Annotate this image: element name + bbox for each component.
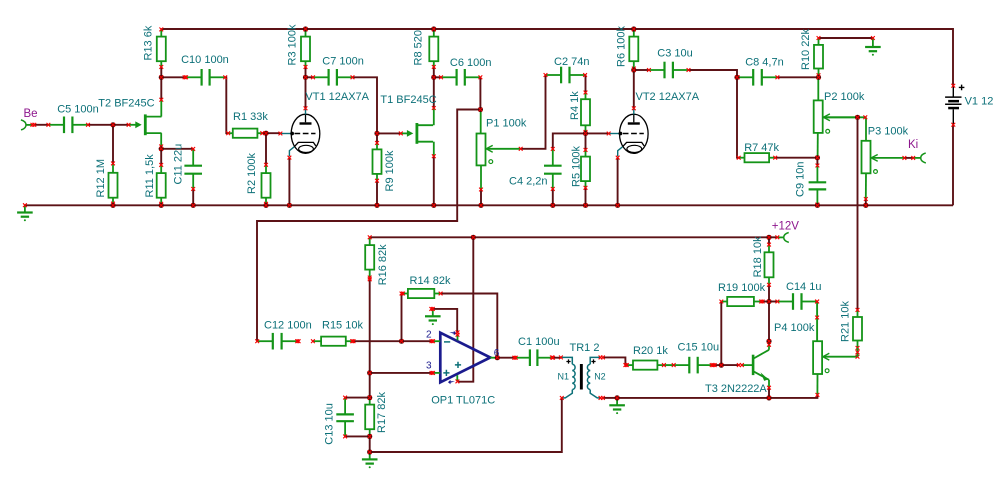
junction node at 865.8,205.3 xyxy=(863,203,868,208)
P3 top lead xyxy=(865,117,867,141)
T2 drain lead xyxy=(160,100,162,117)
wire P3 bottom to ground rail xyxy=(865,199,867,205)
svg-text:3: 3 xyxy=(426,361,432,372)
wire node to VT2 grid xyxy=(586,132,609,134)
R21 lead to P4 wiper xyxy=(857,348,859,357)
T1 drain lead xyxy=(433,108,435,125)
wire R10 top to ground xyxy=(819,37,873,39)
wire rail to R18 xyxy=(768,237,770,244)
junction node at 369.7,397.6 xyxy=(367,395,372,400)
wire R1 to VT1 grid xyxy=(262,132,280,134)
resistor R6 100k xyxy=(629,28,638,71)
capacitor C13 10u xyxy=(336,396,354,439)
junction node at 266,133.2 xyxy=(263,131,268,136)
resistor R1 33k xyxy=(226,129,264,138)
P4 bottom lead xyxy=(816,374,818,395)
wire node to R5 xyxy=(585,133,587,150)
svg-text:P4 100k: P4 100k xyxy=(774,322,815,334)
junction node at 769,341.2 xyxy=(766,339,771,344)
P4 top lead x xyxy=(815,300,819,304)
wire node to R2 xyxy=(265,133,267,165)
capacitor C4 2,2n xyxy=(544,147,562,191)
capacitor C3 10u xyxy=(647,62,690,79)
wire node to C10 xyxy=(161,76,186,78)
resistor R11 1,5k xyxy=(157,163,166,206)
output terminal Ki xyxy=(911,153,926,163)
resistor R10 22k xyxy=(814,36,823,77)
wire C7 to T1 gate node xyxy=(353,77,401,133)
wire C6 to node xyxy=(479,77,481,109)
wire node to C11 xyxy=(161,148,193,150)
wire ground rail xyxy=(25,204,953,206)
resistor R17 82k xyxy=(365,396,374,439)
wire C1 to TR1 primary xyxy=(553,357,561,359)
resistor R20 1k xyxy=(624,361,666,370)
capacitor C5 100n xyxy=(47,117,90,134)
svg-text:T2 BF245C: T2 BF245C xyxy=(98,98,154,110)
wire R14 right to output node xyxy=(441,294,498,358)
wire C11 to ground rail xyxy=(192,189,194,205)
resistor R7 47k xyxy=(737,153,777,162)
wire R9 to ground rail xyxy=(376,181,378,206)
junction node at 633.8,70 xyxy=(631,67,636,72)
wire C8 to R10 node xyxy=(777,76,818,78)
wire T1 source to ground rail xyxy=(433,156,435,205)
wire R12 to ground rail xyxy=(112,204,114,206)
resistor R12 1M xyxy=(109,162,118,206)
wire C14 right to P4 top xyxy=(816,302,818,342)
wire R5 to ground rail xyxy=(585,188,587,206)
wire node to R9 xyxy=(376,133,378,143)
wire node to C9 xyxy=(816,158,818,166)
wire R18 to node xyxy=(768,285,770,302)
P3 bottom lead xyxy=(865,173,867,199)
svg-text:R19 100k: R19 100k xyxy=(718,282,766,294)
svg-text:P1 100k: P1 100k xyxy=(486,118,527,130)
wire node to T1 drain xyxy=(433,77,435,108)
svg-text:C13 10u: C13 10u xyxy=(324,403,336,445)
wire R6 bottom to node xyxy=(633,69,635,71)
svg-text:OP1 TL071C: OP1 TL071C xyxy=(431,395,495,407)
svg-text:C4 2,2n: C4 2,2n xyxy=(509,175,548,187)
capacitor C15 10u xyxy=(672,357,715,374)
svg-text:R11 1,5k: R11 1,5k xyxy=(144,154,156,198)
wire P3 wiper to Ki terminal xyxy=(905,157,913,159)
potentiometer P3 100k xyxy=(862,141,905,174)
capacitor C7 100n xyxy=(311,69,354,86)
wire R3 bottom to node xyxy=(305,67,307,77)
wire P1 wiper to C2 xyxy=(521,75,546,149)
wire C10 to R1 xyxy=(225,77,228,133)
junction node at 305.5,77.3 xyxy=(303,75,308,80)
wire bottom net to P4 bottom xyxy=(617,395,817,398)
junction node at 369.7,436.4 xyxy=(367,434,372,439)
svg-text:T1 BF245C: T1 BF245C xyxy=(380,94,436,106)
svg-text:N1: N1 xyxy=(558,371,570,381)
junction node at 497.3,357.7 xyxy=(495,355,500,360)
resistor R4 1k xyxy=(581,91,590,134)
wire node to C4 xyxy=(553,133,586,149)
resistor R9 100k xyxy=(373,141,382,183)
svg-text:C14 1u: C14 1u xyxy=(786,281,821,293)
svg-text:R17 82k: R17 82k xyxy=(376,392,388,433)
junction node at 113,124.8 xyxy=(110,122,115,127)
wire node to C14 xyxy=(769,301,777,303)
junction node at 633.8,29 xyxy=(631,26,636,31)
junction node at 161.2,205.3 xyxy=(159,203,164,208)
svg-text:R5 100k: R5 100k xyxy=(571,146,583,187)
junction node at 193.2,205.3 xyxy=(191,203,196,208)
junction node at 161.3,77.3 xyxy=(159,75,164,80)
junction node at 377,133.4 xyxy=(374,131,379,136)
capacitor C9 10n xyxy=(809,164,827,207)
battery V1 12 xyxy=(945,84,964,127)
wire base node to T3 xyxy=(721,364,739,366)
svg-text:C9 10n: C9 10n xyxy=(795,162,807,197)
junction node at 769,301.5 xyxy=(766,299,771,304)
wire C2 to R4 xyxy=(584,75,586,93)
potentiometer P4 100k xyxy=(813,341,857,374)
svg-text:VT2 12AX7A: VT2 12AX7A xyxy=(636,91,700,103)
capacitor C6 100n xyxy=(439,69,482,86)
wire R13 bottom to node xyxy=(160,67,162,77)
svg-text:R8 520: R8 520 xyxy=(412,30,424,65)
junction node at 585.5,205.3 xyxy=(583,203,588,208)
T1 source lead xyxy=(433,142,435,157)
svg-text:TR1 2: TR1 2 xyxy=(570,342,600,354)
capacitor C8 4,7n xyxy=(736,69,780,86)
resistor R3 100k xyxy=(301,28,310,69)
vacuum tube triode VT2 12AX7A xyxy=(607,106,648,159)
wire R7 to P2 bottom node xyxy=(775,157,817,159)
junction node at 401.5,341.2 xyxy=(399,339,404,344)
wire R14 left to pin 2 node xyxy=(401,294,403,342)
wire battery negative to ground rail xyxy=(952,125,954,206)
junction node at 113,205.3 xyxy=(110,203,115,208)
svg-text:C5 100n: C5 100n xyxy=(57,104,99,116)
wire C15 to T3 base node xyxy=(713,364,721,366)
svg-text:R12 1M: R12 1M xyxy=(95,159,107,198)
wire B+ top rail xyxy=(161,29,953,86)
capacitor C14 1u xyxy=(776,293,819,310)
wire R20 to C15 xyxy=(664,364,674,366)
P1 bottom lead xyxy=(480,165,482,189)
wire Be terminal to C5 xyxy=(34,124,48,126)
wire feedback tap to C12 xyxy=(257,110,480,342)
wire output to C1 xyxy=(497,357,514,359)
svg-text:C3 10u: C3 10u xyxy=(657,48,692,60)
svg-text:VT1 12AX7A: VT1 12AX7A xyxy=(305,91,369,103)
svg-text:N2: N2 xyxy=(594,371,606,381)
junction node at 433.8,29 xyxy=(431,26,436,31)
P2 top lead xyxy=(817,77,819,100)
wire VT2 cathode to ground rail xyxy=(617,158,619,206)
wire C13 bottom to node xyxy=(345,435,370,437)
wire T3 emitter to bottom net xyxy=(768,388,770,398)
junction node at 617.6,205.3 xyxy=(615,203,620,208)
wire R8 bottom to node xyxy=(433,67,435,77)
svg-text:+12V: +12V xyxy=(772,221,800,233)
svg-text:R21 10k: R21 10k xyxy=(840,301,852,342)
transformer TR1 xyxy=(550,356,605,400)
resistor R21 10k xyxy=(853,308,862,350)
svg-text:R3 100k: R3 100k xyxy=(287,24,299,65)
svg-text:C7 100n: C7 100n xyxy=(322,56,364,68)
capacitor C10 100n xyxy=(184,69,227,86)
P2 bottom lead xyxy=(817,133,819,158)
junction node at 552.8,205.3 xyxy=(550,203,555,208)
R10 bottom lead to node xyxy=(818,75,820,77)
ground (op-amp pin 7) xyxy=(425,309,441,325)
junction node at 266,205.3 xyxy=(263,203,268,208)
wire R17 bottom node to ground node xyxy=(369,436,371,452)
junction node at 818.5,77.3 xyxy=(816,75,821,80)
capacitor C1 100u xyxy=(512,349,555,366)
wire TR1 primary return to ground node xyxy=(370,398,562,452)
junction node at 161.2,148.8 xyxy=(159,146,164,151)
junction node at 585.5,133.4 xyxy=(583,131,588,136)
junction node at 769,237.3 xyxy=(766,235,771,240)
svg-text:T3 2N2222A: T3 2N2222A xyxy=(705,383,767,395)
junction node at 721.3,365.1 xyxy=(719,363,724,368)
capacitor C2 74n xyxy=(544,67,587,84)
junction node at 369.7,452 xyxy=(367,449,372,454)
svg-text:R10 22k: R10 22k xyxy=(800,29,812,70)
svg-text:R14 82k: R14 82k xyxy=(410,275,451,287)
ground (below R17) xyxy=(362,452,378,468)
svg-text:R15 10k: R15 10k xyxy=(322,320,363,332)
junction node at 481,205.3 xyxy=(478,203,483,208)
wire C5 to T2 gate node xyxy=(88,124,129,126)
junction node at 737,77.3 xyxy=(734,75,739,80)
wire R16 to op-amp pin 3 node xyxy=(369,278,371,398)
svg-text:C1 100u: C1 100u xyxy=(518,336,560,348)
svg-text:R6 100k: R6 100k xyxy=(616,26,628,67)
junction node at 433.8,77.3 xyxy=(431,75,436,80)
ground (top right, R10) xyxy=(872,38,874,47)
wire R11 to ground rail xyxy=(160,204,162,206)
junction node at 769,397.9 xyxy=(766,395,771,400)
resistor R2 100k xyxy=(262,163,271,206)
transistor T1 BF245C (JFET) xyxy=(399,123,433,144)
wire VT1 cathode to ground rail xyxy=(288,158,290,206)
wire node to VT1 anode xyxy=(305,77,307,108)
wire P2 wiper down to R21 xyxy=(857,117,859,310)
svg-text:Be: Be xyxy=(24,108,38,120)
wire +12V rail xyxy=(370,236,778,238)
svg-text:C2 74n: C2 74n xyxy=(554,56,589,68)
wire R19 left down to T3 base node xyxy=(720,302,722,366)
resistor R16 82k xyxy=(365,235,374,279)
wire T2 source to node xyxy=(160,146,162,148)
wire node to VT2 anode xyxy=(633,70,635,108)
resistor R5 100k xyxy=(581,148,590,190)
svg-text:R1 33k: R1 33k xyxy=(233,111,268,123)
wire node to T2 drain xyxy=(160,77,162,99)
svg-text:Ki: Ki xyxy=(908,139,918,151)
ground (TR1 secondary) xyxy=(609,398,625,414)
junction node at 817.4,157.7 xyxy=(815,155,820,160)
svg-text:P2 100k: P2 100k xyxy=(824,91,865,103)
junction node at 480.4,109.5 xyxy=(478,107,483,112)
junction node at 305.5,29 xyxy=(303,26,308,31)
svg-text:2: 2 xyxy=(426,330,432,341)
wire node to C3 xyxy=(634,69,649,71)
svg-text:R7 47k: R7 47k xyxy=(744,142,779,154)
svg-text:R4 1k: R4 1k xyxy=(569,91,581,120)
svg-text:C11 22u: C11 22u xyxy=(173,144,185,185)
+12V supply terminal xyxy=(775,233,788,243)
wire P1 bottom to ground rail xyxy=(480,190,482,206)
resistor R18 10k xyxy=(765,243,774,287)
junction node at 857.5,117.3 xyxy=(855,115,860,120)
svg-text:C10 100n: C10 100n xyxy=(181,54,229,66)
wire R19 to node xyxy=(763,301,769,303)
svg-text:R13 6k: R13 6k xyxy=(142,25,154,60)
junction node at 433.8,205.3 xyxy=(431,203,436,208)
P1 top lead xyxy=(480,110,482,134)
svg-text:R20 1k: R20 1k xyxy=(633,345,668,357)
wire node to R11 xyxy=(160,149,162,165)
wire node to C13 top xyxy=(345,397,370,399)
wire TR1 secondary bottom to ground node xyxy=(603,397,617,399)
svg-text:C12 100n: C12 100n xyxy=(264,320,312,332)
resistor R15 10k xyxy=(311,337,355,346)
resistor R19 100k xyxy=(719,297,763,306)
junction node at 369.7,372.9 xyxy=(367,370,372,375)
svg-text:C8 4,7n: C8 4,7n xyxy=(745,57,784,69)
wire TR1 secondary to R20 xyxy=(603,357,625,365)
wire R2 to ground rail xyxy=(265,204,267,206)
junction node at 473.3,237.3 xyxy=(471,235,476,240)
input terminal Be xyxy=(21,120,36,130)
op-amp U1 OP1 TL071C xyxy=(430,331,498,385)
junction node at 617.1,397.9 xyxy=(615,395,620,400)
wire R4 to node xyxy=(585,132,587,134)
wire op-amp pin 7 to ground xyxy=(433,309,457,333)
svg-text:C15 10u: C15 10u xyxy=(678,342,720,354)
resistor R8 520 xyxy=(429,28,438,69)
capacitor C12 100n xyxy=(255,333,299,350)
wire R15 to op-amp pin 2 xyxy=(354,340,433,342)
capacitor C11 22u xyxy=(184,147,202,191)
svg-text:R18 10k: R18 10k xyxy=(752,236,764,277)
potentiometer P2 100k xyxy=(814,100,857,133)
resistor R13 6k xyxy=(157,28,166,69)
svg-text:R9 100k: R9 100k xyxy=(384,150,396,191)
junction node at 377,205.3 xyxy=(374,203,379,208)
junction node at 289.4,205.3 xyxy=(287,203,292,208)
potentiometer P1 100k xyxy=(477,134,521,166)
svg-text:R16 82k: R16 82k xyxy=(377,244,389,285)
wire node down to T3 collector xyxy=(768,302,770,342)
transistor T2 BF245C (JFET) xyxy=(127,114,162,135)
wire C3 to C8 node and down to R7 xyxy=(689,70,739,158)
wire P2 wiper junction xyxy=(823,116,866,118)
wire node to op-amp pin 3 xyxy=(370,372,433,374)
wire node to C7 xyxy=(306,76,314,78)
svg-text:V1 12: V1 12 xyxy=(965,96,994,108)
junction node at 817.4,205.3 xyxy=(815,203,820,208)
ground (left of ground rail) xyxy=(17,205,33,221)
wire node to C6 xyxy=(434,76,441,78)
wire +12V rail to op-amp pin 4 xyxy=(458,237,473,381)
svg-text:C6 100n: C6 100n xyxy=(450,57,492,69)
transistor Q T3 2N2222A (NPN) xyxy=(737,343,771,390)
T2 source lead xyxy=(160,133,162,146)
wire node to R12 xyxy=(112,125,114,164)
svg-text:R2 100k: R2 100k xyxy=(246,153,258,194)
wire C4 to ground rail xyxy=(552,189,554,205)
resistor R14 82k xyxy=(400,289,443,298)
vacuum tube triode VT1 12AX7A xyxy=(279,106,320,159)
svg-text:P3 100k: P3 100k xyxy=(868,126,909,138)
